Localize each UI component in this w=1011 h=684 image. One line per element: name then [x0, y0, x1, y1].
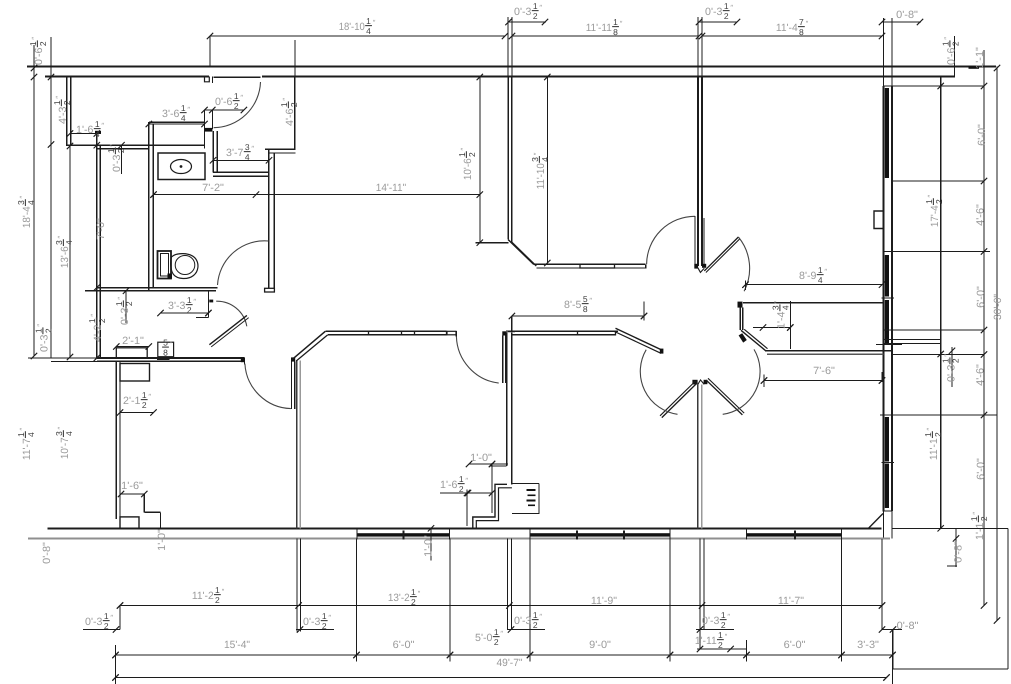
- dim corridor vert line: [479, 77, 481, 243]
- wall M2 cant a: [616, 328, 663, 350]
- svg-text:7'-6": 7'-6": [813, 365, 835, 377]
- svg-text:8'-9: 8'-9: [799, 270, 817, 282]
- window M1 glazing 1: [369, 331, 402, 335]
- dim bottom row2: [116, 654, 893, 656]
- window U1 glazing: [580, 264, 615, 268]
- svg-text:0'-3: 0'-3: [303, 616, 321, 628]
- dim 7-6 ext a: [763, 375, 765, 388]
- wire bathroom-vestibule wall bot: [213, 175, 269, 177]
- svg-text:1: 1: [940, 358, 950, 363]
- wall M1 top a: [325, 330, 446, 332]
- wire south wall top line: [48, 527, 882, 529]
- label 30'-0": [992, 294, 1004, 320]
- dim vest text ticks: [527, 489, 536, 491]
- dim bottom tick a: [83, 629, 120, 631]
- svg-text:1: 1: [923, 432, 933, 437]
- wire 3-3.5 ext b: [196, 317, 208, 319]
- door entry arc: [214, 82, 261, 128]
- wire south wall bottom line: [28, 537, 890, 539]
- wire right wall outer line: [891, 86, 893, 511]
- dim ext x300: [299, 538, 301, 631]
- window right glazing 5: [885, 464, 889, 509]
- label 6'-0": [975, 286, 987, 308]
- svg-text:″: ″: [539, 612, 542, 621]
- dim top 0-3.5 line R: [699, 21, 737, 23]
- svg-text:4: 4: [245, 152, 250, 162]
- wire right wall inner line: [883, 86, 885, 511]
- label 0'-3½": [940, 354, 960, 382]
- svg-text:3: 3: [54, 431, 64, 436]
- svg-text:1: 1: [87, 318, 97, 323]
- svg-text:2: 2: [718, 640, 723, 650]
- door LL office jamb cap: [241, 357, 245, 362]
- dim bottom right v: [1007, 528, 1009, 669]
- svg-text:1: 1: [969, 516, 979, 521]
- svg-text:″: ″: [101, 121, 104, 130]
- door B frame line: [703, 218, 705, 264]
- svg-text:″: ″: [18, 427, 27, 430]
- svg-text:4: 4: [366, 26, 371, 36]
- wire vestibule inner wall b: [273, 153, 275, 288]
- svg-text:8: 8: [583, 304, 588, 314]
- dim right ext y415: [880, 414, 997, 416]
- door LL office leaf a: [291, 361, 293, 409]
- svg-text:11'-11: 11'-11: [586, 22, 612, 34]
- wire hall south wall: [97, 357, 245, 359]
- label 0'-3½": [114, 297, 134, 325]
- svg-text:0'-3: 0'-3: [945, 364, 957, 382]
- door M1 arc: [456, 337, 498, 384]
- dim right col 2: [983, 50, 985, 606]
- wall U1 cant b: [512, 242, 536, 266]
- dim vest right ticks: [512, 483, 539, 485]
- wall U1 left b: [511, 77, 513, 243]
- label 4'-3½": [52, 96, 72, 124]
- wall U1 cant a: [508, 240, 533, 265]
- window M1 end box: [447, 331, 456, 335]
- svg-text:11'-4: 11'-4: [776, 22, 798, 34]
- wall W1 left line: [296, 361, 298, 529]
- label 4'-6": [974, 364, 986, 386]
- wall T notch: [698, 268, 704, 273]
- wall T b: [701, 77, 703, 267]
- dim 1-6 line: [121, 493, 144, 495]
- dim 0-6.5 line: [205, 109, 244, 111]
- svg-text:18'-4: 18'-4: [21, 206, 33, 228]
- svg-text:7: 7: [799, 17, 804, 27]
- label 13'-6¾": [54, 235, 74, 268]
- svg-text:10'-6: 10'-6: [462, 158, 474, 180]
- window right glazing 2: [885, 255, 889, 297]
- fixture toilet bowl inner: [175, 256, 195, 275]
- svg-text:2: 2: [124, 301, 134, 306]
- label 18'-4¾": [16, 195, 36, 228]
- window south mullion: [794, 531, 796, 540]
- svg-text:1'-0": 1'-0": [422, 535, 434, 557]
- wall U1 left a: [507, 77, 509, 240]
- svg-text:11'-2: 11'-2: [192, 590, 214, 602]
- svg-text:″: ″: [240, 93, 243, 102]
- svg-text:10'-7: 10'-7: [59, 437, 71, 459]
- window south glazing: [357, 533, 450, 536]
- dim ext x115: [115, 645, 117, 684]
- svg-text:2: 2: [322, 621, 327, 631]
- wire top-right ledge: [884, 85, 985, 87]
- svg-text:8: 8: [163, 348, 168, 358]
- svg-text:1: 1: [718, 630, 723, 640]
- wire entry recess outer: [473, 484, 507, 528]
- label 10'-6½": [457, 147, 477, 180]
- svg-text:1: 1: [459, 474, 464, 484]
- svg-text:2: 2: [951, 41, 961, 46]
- svg-text:4: 4: [26, 432, 36, 437]
- svg-text:5'-0: 5'-0: [475, 632, 493, 644]
- window M1 glazing 2: [415, 331, 447, 335]
- svg-text:1: 1: [533, 1, 538, 11]
- svg-text:1'-6": 1'-6": [121, 480, 143, 492]
- svg-text:1'-6: 1'-6: [76, 124, 94, 136]
- dim bottom tick d: [696, 629, 734, 631]
- dim ext x841: [841, 538, 843, 661]
- svg-text:30'-0": 30'-0": [992, 294, 1004, 320]
- door entry leaf: [214, 76, 261, 78]
- svg-text:5: 5: [163, 338, 168, 348]
- svg-text:1: 1: [366, 16, 371, 26]
- label 0'-8": [41, 542, 53, 564]
- wire top wall inner line left: [45, 76, 209, 78]
- dim 7-2 14-11 line: [154, 194, 480, 196]
- svg-text:4: 4: [95, 129, 100, 139]
- door D leaf b: [708, 378, 744, 413]
- dim 3-7-3/4 line: [213, 159, 269, 161]
- svg-text:″: ″: [108, 144, 117, 147]
- svg-text:″: ″: [222, 587, 225, 596]
- label 4'-6½": [279, 98, 299, 126]
- dim 3-3.5 line: [161, 312, 209, 314]
- svg-text:13'-2: 13'-2: [388, 592, 410, 604]
- svg-text:4'-2: 4'-2: [92, 324, 104, 342]
- dim right 0-3.5 ext: [951, 347, 953, 387]
- dim bottom row1: [120, 605, 882, 607]
- svg-text:1: 1: [411, 587, 416, 597]
- dim bottom row3: [116, 677, 887, 679]
- dim top ext left: [209, 36, 211, 67]
- window south glazing: [747, 533, 842, 536]
- wall U1 bottom b: [536, 267, 645, 269]
- dim right 0-8 tick: [947, 565, 957, 567]
- svg-text:1: 1: [940, 41, 950, 46]
- wall E cant a: [741, 330, 765, 350]
- wall W3 line a: [697, 385, 699, 529]
- svg-text:″: ″: [942, 37, 951, 40]
- svg-text:″: ″: [54, 96, 63, 99]
- svg-text:″: ″: [620, 19, 623, 28]
- svg-text:2: 2: [142, 400, 147, 410]
- wall T cap left: [694, 264, 698, 269]
- svg-text:8'-5: 8'-5: [564, 299, 582, 311]
- svg-text:15'-4": 15'-4": [224, 639, 250, 651]
- wire E ext: [789, 301, 791, 349]
- fixture toilet tank inner: [161, 254, 169, 277]
- label 4'-2½": [87, 314, 107, 342]
- svg-text:4: 4: [781, 305, 791, 310]
- svg-text:11'-1: 11'-1: [928, 438, 940, 460]
- svg-text:″: ″: [30, 37, 39, 40]
- dim left col 4-3: [50, 37, 52, 358]
- wall M2 cant b: [615, 332, 662, 354]
- wall W2 b: [511, 316, 513, 485]
- svg-text:1'-1: 1'-1: [974, 522, 986, 540]
- svg-text:″: ″: [373, 18, 376, 27]
- svg-text:3'-3: 3'-3: [168, 300, 186, 312]
- wire bathroom east wall b: [216, 131, 218, 172]
- fixture sink bowl: [171, 160, 192, 174]
- svg-text:″: ″: [148, 392, 151, 401]
- window south mullion: [403, 531, 405, 540]
- svg-text:2: 2: [234, 101, 239, 111]
- door A leaf line: [694, 216, 696, 264]
- label 1'-1½": [969, 512, 989, 540]
- svg-text:1: 1: [104, 611, 109, 621]
- window south jambs: [529, 528, 531, 539]
- svg-text:2'-1: 2'-1: [123, 395, 141, 407]
- svg-text:0'-3: 0'-3: [85, 616, 103, 628]
- dim bottom tick b: [296, 629, 334, 631]
- svg-text:7'-2": 7'-2": [202, 182, 224, 194]
- wall U1 bottom a: [534, 263, 646, 265]
- wire opening box above wall: [116, 348, 147, 358]
- wire bathroom east wall a: [212, 131, 214, 172]
- wall T cap right: [702, 264, 706, 268]
- wall E south gray: [765, 350, 892, 352]
- svg-text:″: ″: [328, 613, 331, 622]
- svg-text:6'-0": 6'-0": [975, 458, 987, 480]
- door LL office leaf b: [294, 361, 296, 409]
- dim left 1-6 tickblk: [95, 131, 101, 134]
- svg-text:0'-8": 0'-8": [896, 9, 918, 21]
- svg-text:1: 1: [724, 1, 729, 11]
- dim right ext y181: [892, 180, 984, 182]
- svg-text:″: ″: [589, 296, 592, 305]
- wall M2 top b: [512, 334, 616, 336]
- dim right col 3: [996, 67, 998, 621]
- door 45 leaf: [209, 315, 247, 344]
- label 11'-1½": [923, 427, 943, 460]
- door LL office arc: [245, 364, 291, 409]
- window south glazing: [530, 533, 670, 536]
- svg-text:0'-3: 0'-3: [514, 6, 532, 18]
- wall W34 cap right: [704, 380, 708, 384]
- window right glazing 3: [885, 300, 889, 344]
- label 10'-7¾": [54, 426, 74, 459]
- wall M2 top a: [508, 330, 619, 332]
- svg-text:4: 4: [818, 275, 823, 285]
- svg-text:8: 8: [613, 27, 618, 37]
- wall U2 bottom: [743, 302, 884, 304]
- svg-text:2: 2: [721, 620, 726, 630]
- door 45 stop block: [209, 300, 213, 303]
- wire hall south wall inner: [97, 360, 245, 362]
- wire W2 mid tick: [490, 465, 507, 467]
- wall W34 cap left: [692, 380, 697, 385]
- dim top 18-10-1/4 line: [210, 35, 505, 37]
- svg-text:1'-4: 1'-4: [775, 311, 787, 329]
- dim 8-5-5/8 ext: [643, 301, 645, 320]
- fixture sink counter: [158, 153, 205, 180]
- svg-text:″: ″: [539, 3, 542, 12]
- dim left col 13-6: [69, 146, 71, 358]
- wire west wall inner: [99, 145, 101, 358]
- wire vestibule step b: [269, 152, 296, 154]
- dim 0-6.5 ext: [211, 110, 213, 129]
- wire U1 bottom end tick: [645, 264, 647, 268]
- svg-text:4: 4: [181, 113, 186, 123]
- dim 7-6 ext b: [881, 372, 883, 382]
- svg-text:1: 1: [52, 100, 62, 105]
- dim left col 18-4: [33, 45, 35, 356]
- door entry stop block: [205, 128, 212, 131]
- svg-text:1: 1: [33, 328, 43, 333]
- wire bathroom north wall: [67, 144, 205, 146]
- svg-text:″: ″: [193, 297, 196, 306]
- svg-text:″: ″: [35, 324, 44, 327]
- svg-text:1: 1: [142, 390, 147, 400]
- wire corridor corner: [476, 242, 509, 244]
- dim U1 height line: [546, 77, 548, 264]
- dim vest ext x492: [491, 463, 493, 513]
- wall W34 notch: [698, 380, 704, 385]
- svg-text:14'-11": 14'-11": [376, 182, 407, 194]
- svg-text:″: ″: [806, 19, 809, 28]
- dim ext U1 walls up: [507, 17, 509, 77]
- wire right wall pilaster: [874, 211, 884, 229]
- dim ext x296: [296, 538, 298, 631]
- svg-text:3'-7: 3'-7: [226, 147, 244, 159]
- svg-text:″: ″: [251, 144, 254, 153]
- dim 7-6 line: [764, 380, 882, 382]
- svg-text:1: 1: [924, 199, 934, 204]
- svg-text:1'-6: 1'-6: [440, 479, 458, 491]
- svg-text:2: 2: [289, 102, 299, 107]
- svg-text:8: 8: [799, 27, 804, 37]
- wire west wall upper outer: [66, 77, 68, 147]
- dim ext x670: [669, 538, 671, 661]
- svg-text:2: 2: [459, 484, 464, 494]
- svg-text:3: 3: [530, 157, 540, 162]
- door M1 leaf cap: [502, 331, 506, 335]
- svg-text:″: ″: [925, 427, 934, 430]
- svg-text:1: 1: [279, 102, 289, 107]
- wire 3-3.5 ext a: [207, 291, 209, 318]
- wire small box right: [158, 342, 174, 357]
- svg-text:1'-0": 1'-0": [156, 529, 168, 551]
- wire top wall door jamb jog: [205, 77, 210, 82]
- wire top wall outer line: [27, 66, 996, 68]
- svg-text:2: 2: [116, 148, 126, 153]
- dim 8-5-5/8 line: [512, 315, 644, 317]
- svg-text:3'-6: 3'-6: [162, 108, 180, 120]
- door M1 leaf b: [505, 336, 507, 384]
- wall C inner: [119, 361, 121, 517]
- svg-text:″: ″: [926, 194, 935, 197]
- door B jamb block: [738, 302, 743, 308]
- svg-text:1'-0": 1'-0": [470, 452, 492, 464]
- svg-text:1: 1: [494, 627, 499, 637]
- dim ext x530: [529, 538, 531, 661]
- svg-text:″: ″: [281, 98, 290, 101]
- door bathroom arc: [218, 241, 269, 285]
- wall W2 top stub: [507, 331, 515, 333]
- wire west wall outer: [96, 134, 98, 359]
- dim vest 1-0 line: [469, 463, 508, 465]
- svg-text:2: 2: [951, 358, 961, 363]
- dim ext x892b: [892, 630, 894, 684]
- svg-text:″: ″: [56, 235, 65, 238]
- fixture toilet hinge: [168, 274, 173, 279]
- label 1'-0": [422, 535, 434, 557]
- door B arc: [738, 237, 749, 291]
- svg-text:″: ″: [116, 297, 125, 300]
- dim ext window 1-0: [430, 528, 432, 560]
- svg-text:0'-8": 0'-8": [897, 620, 919, 632]
- wall W3 line b: [701, 385, 703, 529]
- dim top 11-11-1/8 line: [512, 35, 699, 37]
- label 0'-6½": [940, 37, 960, 65]
- svg-text:″: ″: [942, 354, 951, 357]
- svg-text:1: 1: [106, 148, 116, 153]
- dim ext x882b: [881, 539, 883, 630]
- svg-text:″: ″: [500, 629, 503, 638]
- dim left 0-3.5 ext: [121, 145, 123, 174]
- svg-text:2: 2: [934, 199, 944, 204]
- dim ext x700: [699, 538, 701, 649]
- dim E tick 1-4-3/4: [753, 327, 790, 329]
- dim ext x120b: [119, 606, 121, 630]
- svg-text:″: ″: [532, 152, 541, 155]
- svg-text:4'-6": 4'-6": [974, 364, 986, 386]
- svg-text:″: ″: [110, 613, 113, 622]
- dim left 1-6-1/4 line: [70, 133, 101, 135]
- svg-text:6'-0": 6'-0": [784, 639, 806, 651]
- window south mullion: [623, 531, 625, 540]
- svg-text:″: ″: [459, 147, 468, 150]
- svg-text:1: 1: [613, 17, 618, 27]
- svg-text:″: ″: [187, 105, 190, 114]
- door E jamb block: [739, 333, 747, 342]
- svg-text:1: 1: [322, 611, 327, 621]
- door 45 arc: [216, 301, 247, 326]
- svg-text:4: 4: [64, 240, 74, 245]
- svg-text:3: 3: [770, 305, 780, 310]
- label 1'-4¾": [770, 301, 790, 329]
- svg-text:18'-10: 18'-10: [339, 21, 365, 33]
- svg-text:″: ″: [824, 267, 827, 276]
- svg-text:11'-7: 11'-7: [21, 438, 33, 460]
- wire WC west wall b: [152, 124, 154, 288]
- label 0'-3½": [106, 144, 126, 172]
- svg-text:2: 2: [38, 41, 48, 46]
- fixture toilet bowl outer: [171, 254, 198, 279]
- label 1'-1": [974, 47, 986, 69]
- dim ext x507: [506, 538, 508, 629]
- svg-text:11'-7": 11'-7": [778, 595, 804, 607]
- label 11'-10¾": [530, 152, 550, 189]
- svg-text:2: 2: [104, 621, 109, 631]
- svg-text:4: 4: [64, 431, 74, 436]
- dim tick marks: [207, 33, 213, 39]
- wire west wall upper inner: [70, 77, 72, 147]
- wall T a: [697, 77, 699, 267]
